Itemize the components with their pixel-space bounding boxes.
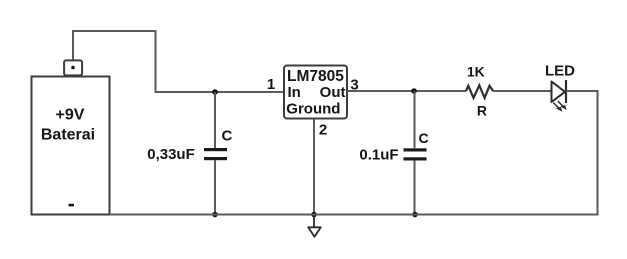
node ground junction bbox=[311, 212, 317, 218]
svg-text:C: C bbox=[419, 130, 429, 146]
node C1 bottom junction bbox=[212, 212, 218, 218]
capacitor C1 0,33uF bbox=[204, 92, 227, 215]
svg-text:LM7805: LM7805 bbox=[287, 68, 344, 85]
svg-text:Baterai: Baterai bbox=[41, 127, 95, 144]
LED D1 bbox=[552, 80, 567, 112]
svg-text:R: R bbox=[477, 103, 487, 119]
wire U1 pin3 to output net bbox=[347, 90, 466, 92]
wire input net to U1 pin1 bbox=[155, 91, 284, 93]
svg-text:1: 1 bbox=[267, 76, 275, 93]
node output junction bbox=[411, 88, 417, 94]
wire down to input net bbox=[155, 30, 157, 92]
node C2 bottom junction bbox=[412, 212, 418, 218]
capacitor C2 0.1uF bbox=[404, 91, 427, 215]
svg-text:Ground: Ground bbox=[286, 101, 340, 118]
svg-text:Out: Out bbox=[320, 84, 346, 101]
svg-text:2: 2 bbox=[319, 122, 327, 139]
node input junction bbox=[212, 89, 218, 95]
svg-text:C: C bbox=[222, 128, 233, 145]
wire top horizontal bbox=[72, 30, 156, 32]
ground bbox=[308, 215, 321, 237]
battery B1 bbox=[32, 60, 110, 214]
wire LED to right rail bbox=[566, 90, 598, 92]
svg-text:+9V: +9V bbox=[56, 107, 85, 124]
wire U1 pin2 down bbox=[313, 119, 315, 215]
wire R1 to LED bbox=[493, 90, 551, 92]
svg-text:LED: LED bbox=[545, 63, 575, 80]
op-amp U1 LM7805 regulator bbox=[284, 66, 347, 119]
wire bottom rail bbox=[110, 214, 599, 216]
svg-text:0,33uF: 0,33uF bbox=[147, 146, 195, 163]
wire battery positive up bbox=[72, 31, 74, 60]
resistor R1 bbox=[466, 85, 493, 98]
svg-text:0.1uF: 0.1uF bbox=[359, 147, 398, 164]
svg-text:In: In bbox=[288, 84, 301, 101]
wire right rail down bbox=[597, 90, 599, 215]
svg-text:1K: 1K bbox=[467, 64, 485, 80]
